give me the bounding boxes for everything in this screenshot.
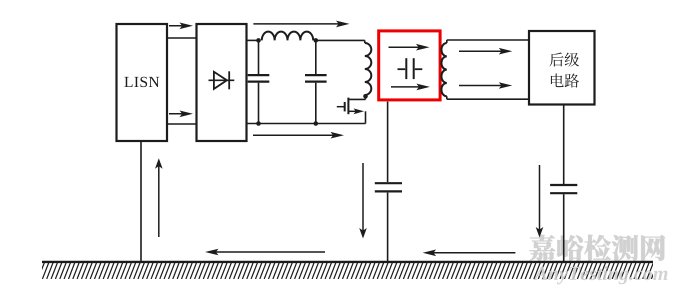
- capacitor C2: [305, 40, 327, 123]
- bridge rectifier box with diode D1: [197, 24, 247, 141]
- current arrow inside red box top: [389, 44, 430, 51]
- current flow arrow bottom long: [253, 132, 344, 139]
- node junction dot C2 bottom: [314, 121, 319, 126]
- inductor L1: [262, 32, 313, 41]
- current arrow down mid: [359, 163, 367, 239]
- watermark 嘉峪检测网: [529, 235, 665, 261]
- LISN box: [117, 24, 168, 141]
- parasitic capacitance to ground Cp1: [375, 183, 402, 191]
- current arrow LISN to rectifier bottom: [169, 111, 193, 118]
- red highlight box (parasitic coupling): [379, 31, 440, 100]
- current flow arrow ground return right: [423, 250, 516, 257]
- current flow arrow ground return left: [205, 249, 325, 256]
- wire LISN to rectifier bottom: [167, 123, 197, 125]
- node junction dot left of L1: [256, 38, 261, 43]
- wire LISN to ground: [140, 141, 142, 261]
- transformer T1 secondary winding: [441, 40, 446, 99]
- MOSFET Q1: [337, 96, 366, 123]
- bottom rail wire: [247, 123, 366, 125]
- ground plane: [38, 262, 658, 279]
- wire load box to ground: [563, 105, 565, 261]
- capacitor C1: [248, 40, 270, 123]
- interwinding capacitance symbol: [398, 58, 423, 79]
- node junction dot right of L1: [314, 38, 319, 43]
- current arrow to load bottom: [459, 82, 512, 89]
- load box 后级电路: [529, 31, 595, 105]
- wire secondary top to load box: [447, 39, 529, 41]
- top rail wire rectifier to transformer: [247, 39, 365, 41]
- wire LISN to rectifier top: [167, 37, 197, 39]
- wire secondary bottom to load box: [447, 98, 529, 100]
- current arrow up near LISN ground wire: [155, 158, 163, 237]
- current arrow to load top: [459, 48, 512, 55]
- node junction dot primary bottom: [363, 94, 368, 99]
- current arrow down right: [536, 165, 544, 238]
- current arrow inside red box bottom: [391, 84, 430, 91]
- transformer T1 primary winding: [365, 40, 372, 95]
- watermark AnyTesting.com: [533, 266, 667, 284]
- parasitic capacitance to ground Cp2: [550, 185, 577, 193]
- node junction dot C1 bottom: [256, 121, 261, 126]
- current arrow LISN to rectifier top: [169, 23, 193, 30]
- wire red box to ground (parasitic path): [387, 102, 389, 261]
- current flow arrow top long: [253, 21, 349, 28]
